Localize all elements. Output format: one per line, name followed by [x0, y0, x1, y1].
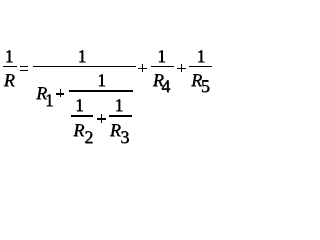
term 1/R3 : bar [109, 115, 132, 117]
term 1/R3 : numerator 1 [114, 104, 123, 106]
term 1/R : denominator R [4, 79, 15, 81]
term 1/R5 : bar [189, 66, 212, 67]
term 1/R5 : numerator 1 [196, 55, 205, 57]
denominator term R1 [36, 92, 47, 94]
plus after big fraction : horizontal stroke [138, 68, 147, 70]
term 1/R4 : numerator 1 [157, 55, 166, 57]
subscript 1 of R1 [45, 99, 54, 101]
plus between 1/R4 and 1/R5 : horizontal stroke [177, 68, 186, 70]
term 1/R4 : bar [151, 66, 174, 67]
term 1/R : numerator 1 [5, 55, 14, 57]
term 1/R4 : denominator R [153, 79, 164, 81]
equals sign bottom stroke [20, 70, 28, 71]
equals sign top stroke [20, 66, 28, 67]
term 1/R5 : denominator R [191, 79, 202, 81]
plus between 1/R2 and 1/R3 : horizontal stroke [97, 118, 106, 120]
big fraction : numerator 1 [77, 55, 86, 57]
term 1/R : fraction bar [3, 66, 17, 67]
inner fraction : numerator 1 [97, 79, 106, 81]
term 1/R2 : bar [71, 115, 94, 117]
term 1/R2 : numerator 1 [75, 104, 84, 106]
term 1/R2 : denominator R [73, 129, 84, 131]
term 1/R3 : denominator R [110, 129, 121, 131]
subscript 4 of R4 [161, 85, 170, 87]
big fraction : main bar [33, 66, 136, 67]
plus after R1 : vertical stroke [60, 89, 62, 98]
subscript 5 of R5 [201, 85, 210, 87]
plus after big fraction : vertical stroke [142, 64, 144, 72]
plus between 1/R2 and 1/R3 : vertical stroke [101, 114, 103, 123]
plus after R1 : horizontal stroke [56, 93, 65, 95]
plus between 1/R4 and 1/R5 : vertical stroke [181, 64, 183, 72]
subscript 3 of R3 [120, 136, 129, 138]
inner fraction : bar [69, 90, 134, 92]
subscript 2 of R2 [84, 136, 93, 138]
